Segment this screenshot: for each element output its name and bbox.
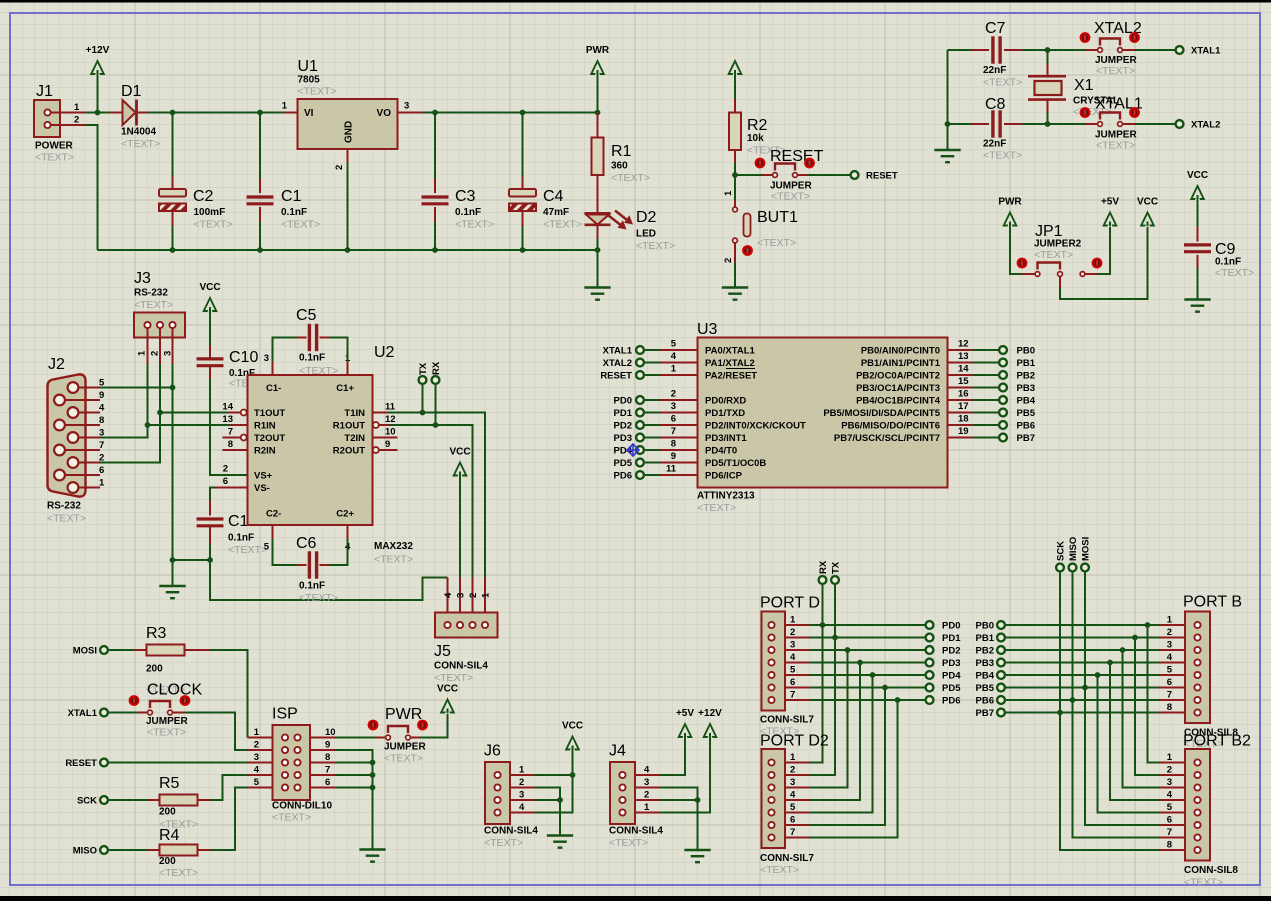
node MISO: [73, 846, 108, 857]
junction: [1045, 121, 1051, 127]
junction: [1145, 622, 1151, 628]
node MISO: [1068, 537, 1079, 572]
wire: [335, 762, 373, 764]
junction: [170, 110, 176, 116]
svg-text:+12V: +12V: [698, 708, 722, 719]
svg-text:LED: LED: [636, 229, 656, 240]
svg-text:PORT B: PORT B: [1183, 594, 1242, 611]
svg-text:JP1: JP1: [1035, 223, 1063, 240]
svg-text:4: 4: [99, 403, 105, 414]
wire: [173, 559, 211, 561]
svg-text:8: 8: [325, 752, 330, 763]
svg-text:C8: C8: [985, 96, 1006, 113]
svg-text:PD5: PD5: [942, 683, 961, 694]
svg-text:2: 2: [150, 351, 161, 356]
svg-text:<TEXT>: <TEXT>: [636, 240, 675, 252]
wire: [335, 774, 373, 776]
svg-text:1: 1: [644, 802, 650, 813]
svg-text:PD6: PD6: [614, 471, 632, 482]
svg-text:<TEXT>: <TEXT>: [47, 513, 86, 525]
wire PORT D row PD5: [810, 687, 926, 689]
svg-text:4: 4: [1167, 652, 1173, 663]
svg-text:PD1: PD1: [614, 408, 633, 419]
led D2: [585, 175, 676, 252]
svg-text:8: 8: [228, 439, 233, 450]
wire SCK drop: [1060, 572, 1160, 851]
junction: [845, 647, 851, 653]
svg-text:C9: C9: [1215, 241, 1236, 258]
svg-text:SCK: SCK: [1056, 541, 1067, 561]
wire: [660, 734, 710, 813]
svg-text:POWER: POWER: [35, 141, 74, 152]
svg-text:CONN-SIL7: CONN-SIL7: [760, 715, 814, 726]
jumper JP1: [1017, 223, 1103, 288]
svg-text:16: 16: [958, 389, 969, 400]
connector PORT D CONN-SIL7: [760, 595, 820, 738]
wire PORT D row PD6: [810, 699, 926, 701]
svg-text:RX: RX: [431, 361, 442, 375]
jumper CLOCK: [108, 682, 202, 739]
svg-text:PD3: PD3: [942, 658, 960, 669]
svg-text:<TEXT>: <TEXT>: [147, 727, 186, 739]
svg-text:RS-232: RS-232: [134, 288, 168, 299]
power terminal PWR: [998, 197, 1022, 227]
svg-text:VCC: VCC: [199, 282, 220, 293]
U3 pin 5 PA0/XTAL1 node XTAL1: [603, 339, 756, 357]
node MOSI: [73, 646, 108, 657]
svg-text:PB7: PB7: [976, 708, 994, 719]
svg-text:ATTINY2313: ATTINY2313: [697, 491, 755, 502]
wire: [597, 239, 599, 288]
svg-text:SCK: SCK: [77, 796, 97, 807]
power terminal +12V: [86, 45, 110, 75]
svg-text:2: 2: [723, 258, 734, 263]
node PB7: [976, 708, 1005, 719]
junction: [870, 672, 876, 678]
resistor R5: [148, 775, 211, 831]
svg-text:5: 5: [671, 339, 677, 350]
wire: [148, 112, 285, 114]
wire: [435, 384, 437, 425]
svg-text:PB0: PB0: [1017, 346, 1035, 357]
node MOSI: [1081, 537, 1092, 572]
junction: [157, 410, 163, 416]
wire: [459, 473, 461, 578]
junction: [432, 247, 438, 253]
junction: [207, 557, 213, 563]
svg-text:7: 7: [325, 765, 330, 776]
svg-text:7805: 7805: [298, 75, 321, 86]
svg-text:PD5: PD5: [614, 458, 633, 469]
wire: [97, 71, 99, 113]
svg-text:<TEXT>: <TEXT>: [609, 837, 648, 849]
wire: [1060, 223, 1148, 300]
wire PORT B row PB5: [1005, 687, 1160, 689]
wire: [85, 112, 110, 114]
svg-text:<TEXT>: <TEXT>: [1096, 65, 1135, 77]
svg-text:19: 19: [958, 426, 969, 437]
wire drop to PORT D2: [810, 675, 873, 813]
svg-text:PB5/MOSI/DI/SDA/PCINT5: PB5/MOSI/DI/SDA/PCINT5: [823, 408, 940, 419]
wire: [209, 544, 211, 560]
svg-text:6: 6: [325, 777, 330, 788]
svg-text:<TEXT>: <TEXT>: [455, 219, 494, 231]
svg-text:14: 14: [222, 402, 233, 413]
svg-text:4: 4: [254, 765, 260, 776]
connector PORT D2 CONN-SIL7: [760, 733, 829, 877]
svg-text:7: 7: [671, 426, 676, 437]
wire PORT B row PB0: [1005, 624, 1160, 626]
connector J5: [434, 578, 498, 685]
capacitor C9: [1184, 196, 1254, 300]
svg-text:4: 4: [644, 765, 650, 776]
svg-text:PD3/INT1: PD3/INT1: [705, 433, 747, 444]
junction: [595, 110, 601, 116]
svg-text:<TEXT>: <TEXT>: [384, 753, 423, 765]
wire: [1135, 123, 1176, 125]
node PD4: [926, 671, 962, 682]
svg-text:1: 1: [137, 350, 148, 356]
svg-text:4: 4: [1167, 790, 1173, 801]
wire RX to port: [810, 584, 823, 763]
svg-text:VCC: VCC: [1137, 197, 1158, 208]
junction: [433, 422, 439, 428]
wire: [535, 799, 561, 801]
svg-text:9: 9: [385, 439, 390, 450]
wire ISP gnd pins: [335, 750, 373, 850]
svg-text:12: 12: [385, 414, 396, 425]
node PB2: [976, 646, 1005, 657]
svg-text:VCC: VCC: [437, 684, 458, 695]
svg-text:0.1nF: 0.1nF: [281, 207, 307, 218]
svg-text:1: 1: [254, 727, 260, 738]
svg-text:XTAL2: XTAL2: [1191, 120, 1220, 131]
wire drop to PORT D2: [810, 688, 885, 826]
wire MISO drop: [1073, 572, 1161, 838]
svg-text:1: 1: [74, 102, 80, 113]
svg-text:U2: U2: [374, 344, 395, 361]
svg-text:11: 11: [666, 464, 677, 475]
svg-text:1: 1: [519, 765, 525, 776]
wire gnd run to J5: [210, 560, 448, 600]
svg-text:X1: X1: [1074, 77, 1094, 94]
node PB5: [976, 683, 1005, 694]
svg-text:1: 1: [1167, 752, 1173, 763]
svg-text:6: 6: [99, 465, 104, 476]
svg-text:17: 17: [958, 401, 969, 412]
svg-text:13: 13: [222, 414, 233, 425]
svg-text:CONN-SIL4: CONN-SIL4: [484, 826, 538, 837]
power arrow VCC above R2: [729, 61, 742, 75]
svg-text:3: 3: [264, 353, 269, 364]
svg-text:<TEXT>: <TEXT>: [543, 219, 582, 231]
wire: [85, 125, 98, 250]
svg-text:T1IN: T1IN: [344, 408, 365, 419]
ground: [547, 834, 573, 836]
svg-text:47mF: 47mF: [543, 207, 569, 218]
svg-text:RESET: RESET: [65, 758, 97, 769]
connector J3: [134, 270, 185, 364]
wire: [211, 788, 248, 851]
svg-text:3: 3: [644, 777, 649, 788]
svg-text:1: 1: [723, 190, 734, 196]
wire: [660, 788, 698, 851]
svg-text:PD4/T0: PD4/T0: [705, 446, 737, 457]
U3 pin 8 PD4/T0 node PD4: [614, 439, 738, 457]
wire drop to PORT D2: [810, 700, 898, 838]
capacitor C11: [197, 501, 268, 557]
wire: [808, 174, 850, 176]
svg-text:22nF: 22nF: [983, 139, 1006, 150]
svg-text:7: 7: [99, 440, 104, 451]
svg-text:PB6: PB6: [1017, 421, 1035, 432]
wire: [108, 762, 248, 764]
junction: [520, 110, 526, 116]
svg-text:4: 4: [790, 652, 796, 663]
wire MOSI drop: [1085, 572, 1160, 826]
capacitor C7: [972, 20, 1023, 89]
svg-text:XTAL2: XTAL2: [603, 358, 632, 369]
junction: [732, 172, 738, 178]
power terminal +12V: [698, 708, 722, 738]
U3 pin 7 PD3/INT1 node PD3: [614, 426, 748, 444]
svg-text:8: 8: [671, 439, 676, 450]
svg-text:5: 5: [99, 378, 105, 389]
wire: [211, 775, 248, 800]
power terminal VCC above J5: [449, 447, 470, 477]
svg-text:<TEXT>: <TEXT>: [983, 77, 1022, 89]
svg-text:3: 3: [671, 401, 676, 412]
wire: [535, 774, 573, 776]
svg-text:11: 11: [385, 402, 396, 413]
node PB0: [976, 621, 1005, 632]
node PB6: [976, 696, 1005, 707]
svg-text:VO: VO: [377, 108, 392, 119]
svg-text:4: 4: [519, 802, 525, 813]
node PD5: [926, 683, 962, 694]
capacitor C8: [948, 96, 1023, 162]
connector PORT B CONN-SIL8: [1160, 594, 1242, 751]
node PD2: [926, 646, 961, 657]
svg-text:RESET: RESET: [600, 371, 632, 382]
svg-text:4: 4: [443, 592, 454, 598]
svg-text:3: 3: [790, 640, 795, 651]
ground: [359, 848, 385, 850]
U3 pin 14 PB2/OC0A/PCINT2 node PB2: [856, 364, 1035, 382]
svg-text:2: 2: [468, 593, 479, 598]
svg-text:5: 5: [264, 542, 270, 553]
junction: [695, 797, 701, 803]
wire: [160, 412, 228, 414]
svg-text:J4: J4: [609, 743, 626, 760]
svg-text:BUT1: BUT1: [757, 209, 798, 226]
svg-text:<TEXT>: <TEXT>: [121, 138, 160, 150]
wire PORT B row PB6: [1005, 699, 1160, 701]
wire: [422, 384, 424, 413]
svg-text:5: 5: [1167, 802, 1173, 813]
svg-text:1: 1: [481, 592, 492, 598]
svg-text:U1: U1: [298, 58, 319, 75]
jumper XTAL2: [1080, 20, 1142, 77]
capacitor C2: [159, 113, 233, 251]
wire: [597, 71, 599, 113]
svg-text:C2-: C2-: [266, 509, 281, 520]
svg-text:9: 9: [671, 451, 676, 462]
U3 pin 13 PB1/AIN1/PCINT1 node PB1: [861, 351, 1036, 369]
svg-text:2: 2: [790, 765, 795, 776]
svg-text:PB0: PB0: [976, 621, 994, 632]
svg-text:9: 9: [325, 740, 330, 751]
svg-text:MISO: MISO: [73, 846, 97, 857]
junction: [420, 410, 426, 416]
jumper RESET: [755, 148, 824, 203]
node XTAL1: [68, 708, 108, 719]
svg-text:10: 10: [385, 427, 396, 438]
svg-text:XTAL1: XTAL1: [1191, 46, 1221, 57]
svg-text:8: 8: [99, 415, 104, 426]
wire: [148, 424, 230, 426]
junction: [820, 622, 826, 628]
svg-text:C4: C4: [543, 188, 564, 205]
node XTAL1: [1176, 46, 1221, 57]
svg-text:<TEXT>: <TEXT>: [228, 544, 267, 556]
svg-text:T2IN: T2IN: [344, 433, 365, 444]
svg-text:C5: C5: [296, 307, 317, 324]
svg-text:2: 2: [74, 115, 79, 126]
svg-text:VS+: VS+: [254, 471, 273, 482]
U3 pin 3 PD1/TXD node PD1: [614, 401, 746, 419]
svg-text:T2OUT: T2OUT: [254, 433, 285, 444]
capacitor C3: [422, 113, 495, 251]
svg-text:2: 2: [790, 627, 795, 638]
svg-text:<TEXT>: <TEXT>: [281, 219, 320, 231]
junction: [895, 697, 901, 703]
svg-text:7: 7: [1167, 690, 1172, 701]
junction: [1070, 697, 1076, 703]
svg-text:PORT B2: PORT B2: [1183, 733, 1251, 750]
svg-text:3: 3: [254, 752, 259, 763]
svg-text:0.1nF: 0.1nF: [299, 581, 325, 592]
svg-text:XTAL1: XTAL1: [603, 346, 633, 357]
junction: [1120, 647, 1126, 653]
diode D1: [110, 83, 161, 150]
svg-text:360: 360: [611, 161, 628, 172]
power terminal VCC above C9: [1187, 170, 1208, 200]
wire R1OUT to J5 pin2: [389, 425, 473, 578]
connector J6: [484, 743, 538, 850]
ground: [934, 149, 960, 151]
node RX: [818, 560, 829, 584]
svg-text:0.1nF: 0.1nF: [455, 207, 481, 218]
svg-text:J5: J5: [434, 643, 451, 660]
node SCK: [1056, 541, 1067, 572]
svg-text:VS-: VS-: [254, 483, 270, 494]
svg-text:C2: C2: [193, 188, 214, 205]
svg-text:<TEXT>: <TEXT>: [159, 867, 198, 879]
regulator U1 7805: [282, 58, 423, 170]
wire drop to PORT D2: [810, 650, 848, 788]
svg-text:R3: R3: [146, 625, 167, 642]
svg-text:<TEXT>: <TEXT>: [697, 502, 736, 514]
node SCK: [77, 796, 108, 807]
svg-text:PB7/USCK/SCL/PCINT7: PB7/USCK/SCL/PCINT7: [834, 433, 940, 444]
svg-text:JUMPER2: JUMPER2: [1034, 239, 1082, 250]
junction: [945, 121, 951, 127]
svg-text:MAX232: MAX232: [374, 541, 413, 552]
svg-text:2: 2: [644, 790, 649, 801]
svg-text:PD2/INT0/XCK/CKOUT: PD2/INT0/XCK/CKOUT: [705, 421, 806, 432]
wire: [535, 747, 573, 813]
svg-text:5: 5: [1167, 665, 1173, 676]
svg-text:RESET: RESET: [866, 171, 898, 182]
connector PORT B2 CONN-SIL8: [1160, 733, 1251, 889]
wire PORT D row PD0: [810, 624, 926, 626]
wire drop to PORT B2: [1110, 663, 1160, 801]
svg-text:22nF: 22nF: [983, 65, 1006, 76]
svg-text:2: 2: [671, 389, 676, 400]
svg-text:<TEXT>: <TEXT>: [434, 672, 473, 684]
svg-text:<TEXT>: <TEXT>: [298, 86, 337, 98]
svg-text:1: 1: [1167, 615, 1173, 626]
junction: [170, 385, 176, 391]
svg-text:RX: RX: [818, 560, 829, 574]
wire TX to port: [810, 584, 835, 775]
wire PORT B row PB3: [1005, 662, 1160, 664]
svg-text:CONN-DIL10: CONN-DIL10: [272, 801, 332, 812]
svg-text:C10: C10: [229, 349, 258, 366]
svg-text:2: 2: [99, 453, 104, 464]
svg-text:JUMPER: JUMPER: [146, 716, 188, 727]
wire: [185, 713, 248, 751]
svg-text:PD1: PD1: [942, 633, 961, 644]
svg-text:C2+: C2+: [336, 509, 354, 520]
svg-text:PD6/ICP: PD6/ICP: [705, 471, 743, 482]
wire PORT B row PB2: [1005, 649, 1160, 651]
svg-text:3: 3: [790, 777, 795, 788]
wire: [420, 712, 448, 738]
wire: [172, 364, 174, 586]
svg-text:VCC: VCC: [1187, 170, 1208, 181]
wire drop to PORT B2: [1123, 650, 1161, 788]
svg-text:1: 1: [99, 478, 105, 489]
svg-text:9: 9: [99, 390, 104, 401]
svg-text:2: 2: [254, 740, 259, 751]
capacitor C10: [197, 308, 269, 390]
svg-text:<TEXT>: <TEXT>: [1215, 267, 1254, 279]
wire: [947, 50, 949, 150]
capacitor C4: [509, 113, 582, 251]
connector J2 DB9: [47, 356, 105, 525]
svg-text:3: 3: [163, 351, 174, 356]
ground: [584, 286, 610, 288]
junction: [370, 785, 376, 791]
svg-text:<TEXT>: <TEXT>: [760, 864, 799, 876]
svg-text:2: 2: [519, 777, 524, 788]
U3 pin 12 PB0/AIN0/PCINT0 node PB0: [861, 339, 1035, 357]
wire PORT D row PD4: [810, 674, 926, 676]
svg-text:15: 15: [958, 376, 969, 387]
wire: [100, 364, 160, 463]
power terminal +5V: [676, 708, 694, 738]
connector ISP CONN-DIL10: [248, 706, 336, 824]
junction: [1057, 710, 1063, 716]
resistor R4: [148, 827, 211, 879]
junction: [520, 247, 526, 253]
ground: [722, 286, 748, 288]
svg-text:CONN-SIL4: CONN-SIL4: [609, 826, 663, 837]
wire: [735, 163, 762, 176]
svg-text:7: 7: [790, 690, 795, 701]
